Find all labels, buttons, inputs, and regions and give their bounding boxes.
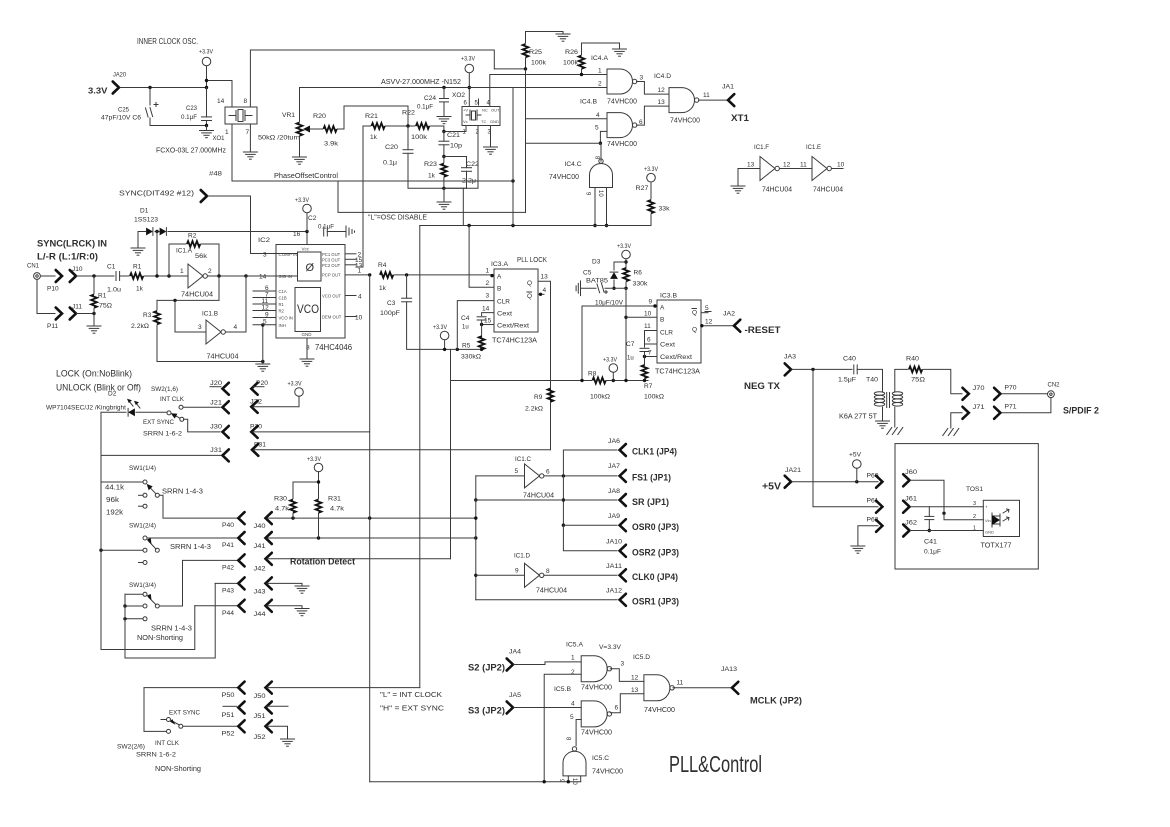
svg-text:IC1.F: IC1.F (754, 144, 769, 151)
svg-text:VCO: VCO (297, 304, 319, 316)
svg-text:C4: C4 (461, 315, 470, 322)
wire SW1-2 top contact to P41 (147, 537, 236, 539)
wire P70 to CN2 (1002, 393, 1048, 395)
svg-text:10: 10 (644, 311, 652, 318)
svg-text:TC: TC (481, 119, 486, 124)
svg-text:3: 3 (621, 661, 625, 668)
svg-text:P11: P11 (47, 323, 58, 330)
inverter IC1.D (525, 563, 544, 587)
svg-text:J42: J42 (254, 566, 266, 573)
svg-text:P44: P44 (222, 610, 234, 617)
svg-text:VCO OUT: VCO OUT (322, 294, 342, 299)
svg-text:15: 15 (484, 318, 492, 325)
ground phase net (437, 188, 451, 209)
svg-text:3.3V: 3.3V (88, 86, 108, 96)
svg-text:PC3 OUT: PC3 OUT (322, 258, 341, 263)
svg-text:K6A 27T 5T: K6A 27T 5T (839, 414, 878, 421)
wire y300 horizontal (157, 299, 219, 301)
svg-text:JA13: JA13 (721, 666, 737, 673)
svg-text:SYNC(LRCK) IN: SYNC(LRCK) IN (37, 239, 107, 250)
connector SYNC arrow (201, 190, 207, 202)
svg-text:+3.3V: +3.3V (307, 456, 322, 463)
wire JA9 row (563, 524, 617, 526)
svg-text:+3.3V: +3.3V (603, 357, 618, 364)
svg-text:EXT SYNC: EXT SYNC (143, 419, 174, 426)
svg-text:1k: 1k (428, 173, 436, 180)
wire P62 from ground (858, 526, 878, 546)
wire SYNC to COMP IN (208, 196, 276, 254)
wire XO1 pin8 up and right (250, 50, 494, 107)
svg-text:1: 1 (973, 526, 976, 532)
svg-text:C41: C41 (924, 539, 937, 546)
svg-text:JA11: JA11 (606, 563, 622, 570)
svg-text:J52: J52 (254, 734, 266, 741)
svg-text:J50: J50 (254, 693, 266, 700)
svg-text:J71: J71 (973, 404, 985, 411)
svg-text:C1A: C1A (279, 289, 287, 294)
bus x525 down (525, 69, 527, 213)
wire +3.3V stem to rail (206, 66, 208, 88)
svg-text:JA1: JA1 (722, 84, 734, 91)
wire P31 to R9 (254, 449, 551, 451)
wire R20 right up and over (338, 106, 409, 129)
svg-text:74HCU04: 74HCU04 (523, 492, 554, 499)
svg-text:J43: J43 (254, 589, 266, 596)
svg-text:330kΩ: 330kΩ (461, 354, 481, 361)
capacitor C41 0.1uF (925, 516, 934, 519)
svg-text:2: 2 (486, 280, 490, 287)
svg-text:R9: R9 (534, 394, 543, 401)
svg-text:CLR: CLR (497, 299, 510, 306)
bus JA rows down (562, 476, 564, 525)
svg-text:4: 4 (358, 294, 362, 301)
svg-text:XO2: XO2 (452, 92, 465, 99)
svg-text:P51: P51 (222, 712, 235, 719)
wire R25 bottom (525, 58, 527, 69)
wire J40 right to R30 and bus (267, 517, 474, 519)
LED D2 (127, 399, 140, 417)
wire S2 to IC5.A pin1 (514, 662, 581, 665)
power +3.3V XO2 (465, 64, 474, 73)
wire J44 to ground (267, 606, 302, 609)
svg-text:R1: R1 (98, 293, 107, 300)
wire C22 bottom (444, 171, 467, 188)
wire Q13 down long to P31 (538, 281, 551, 450)
nand gate IC5.A (581, 656, 611, 682)
svg-text:C21: C21 (447, 132, 460, 139)
wire pin5 node left (526, 142, 601, 144)
svg-text:3.9k: 3.9k (324, 141, 339, 148)
svg-text:74VHC00: 74VHC00 (670, 118, 700, 125)
svg-text:IC2: IC2 (258, 237, 270, 244)
wire IC4.D output 11 to XT1 (699, 99, 728, 101)
wire R21 left to bus (363, 125, 371, 127)
ground VR1 (293, 157, 307, 164)
svg-text:Cext: Cext (497, 311, 512, 318)
svg-text:IC4.C: IC4.C (565, 161, 582, 168)
svg-text:14: 14 (217, 98, 225, 105)
connector J71 (963, 407, 969, 419)
svg-text:R1: R1 (133, 264, 142, 271)
svg-text:CN1: CN1 (27, 264, 40, 270)
ground IC2 pin8 (300, 359, 314, 366)
svg-text:+3.3V: +3.3V (644, 166, 659, 173)
wire J22 to +3.3V (253, 396, 299, 407)
svg-text:P42: P42 (222, 565, 234, 572)
wire T40 secondary bottom to chassis (894, 407, 896, 427)
svg-text:13: 13 (747, 162, 755, 169)
svg-text:OSR2 (JP3): OSR2 (JP3) (632, 548, 679, 558)
wire bottom rail (370, 781, 581, 783)
power +3.3V R8 (609, 364, 618, 373)
node C24 junction (442, 86, 445, 89)
svg-text:R4: R4 (378, 262, 387, 269)
svg-text:P70: P70 (1005, 385, 1017, 392)
chassis ground J71 (943, 429, 959, 436)
svg-text:+5V: +5V (849, 452, 862, 459)
svg-text:SW1(3/4): SW1(3/4) (129, 582, 156, 589)
connector JA20 arrow (113, 82, 119, 94)
svg-text:J21: J21 (210, 400, 222, 407)
svg-text:50kΩ /20turn: 50kΩ /20turn (258, 135, 300, 142)
svg-text:75Ω: 75Ω (99, 303, 112, 310)
svg-text:INT CLK: INT CLK (160, 396, 185, 403)
svg-text:+3.3V: +3.3V (288, 381, 303, 388)
svg-text:R8: R8 (588, 371, 597, 378)
bus +3.3V node down to R8 line (450, 349, 452, 380)
svg-text:5: 5 (515, 468, 519, 475)
svg-text:7: 7 (648, 350, 652, 357)
wire bottom rail to ground and right (444, 188, 463, 225)
svg-text:JA9: JA9 (608, 513, 620, 520)
wire J41 right to R31 (267, 537, 476, 539)
wire IC1.A out (208, 275, 247, 277)
inverter IC1.C (525, 464, 544, 488)
svg-text:SW2(2/6): SW2(2/6) (117, 744, 145, 751)
wire IC1.C in drop (475, 476, 477, 500)
svg-text:JA20: JA20 (113, 72, 126, 79)
svg-text:"H" = EXT SYNC: "H" = EXT SYNC (380, 704, 445, 713)
svg-text:JA5: JA5 (509, 692, 521, 699)
svg-text:13: 13 (541, 274, 549, 281)
wire J62 to TOTX pin1 (911, 530, 984, 532)
svg-text:+3.3V: +3.3V (617, 243, 632, 250)
wire IC1.D output JA11 (544, 574, 617, 576)
svg-text:4.7k: 4.7k (275, 506, 290, 513)
svg-text:74VHC00: 74VHC00 (549, 174, 579, 181)
svg-text:J31: J31 (210, 447, 222, 454)
svg-text:+: + (985, 505, 988, 510)
wire SW1-1 top contact from bus (101, 481, 143, 483)
wire P44 row (195, 605, 237, 607)
nand gate IC4.C vertical (590, 159, 613, 188)
svg-text:D3: D3 (592, 259, 601, 266)
svg-text:0.1μF: 0.1μF (417, 104, 433, 111)
wires R30 R31 bottoms (292, 514, 294, 519)
svg-text:C23: C23 (186, 105, 197, 112)
wire diode rail (138, 231, 146, 233)
svg-text:INNER CLOCK OSC.: INNER CLOCK OSC. (137, 37, 198, 46)
wire R3 leads (156, 300, 158, 310)
svg-text:CLK0 (JP4): CLK0 (JP4) (632, 572, 678, 582)
svg-text:74VHC00: 74VHC00 (592, 769, 623, 776)
svg-text:XO1: XO1 (213, 135, 225, 142)
svg-text:IC5.B: IC5.B (554, 686, 571, 693)
wire SW2-2 bus (144, 688, 166, 732)
svg-text:4.7k: 4.7k (330, 506, 345, 513)
wire IC4.C input from pin5 node (600, 143, 602, 161)
pin 1 PCP OUT wire (345, 274, 370, 276)
svg-text:J70: J70 (973, 385, 985, 392)
crystal oscillator XO1 box (225, 107, 257, 124)
wire IC1.C output JA7 (544, 475, 617, 477)
svg-text:IC3.B: IC3.B (660, 293, 677, 300)
svg-text:"L"=OSC DISABLE: "L"=OSC DISABLE (368, 213, 427, 222)
svg-text:INT CLK: INT CLK (155, 740, 180, 747)
wire C1 to R1h (120, 275, 129, 277)
svg-text:74HCU04: 74HCU04 (762, 187, 792, 194)
svg-text:TC74HC123A: TC74HC123A (655, 367, 700, 376)
svg-text:JA6: JA6 (608, 438, 620, 445)
svg-text:R30: R30 (274, 496, 287, 503)
node junction C23 (205, 86, 208, 89)
wire R25 top to ground (526, 32, 564, 44)
svg-text:S/PDIF 2: S/PDIF 2 (1063, 406, 1099, 416)
wire IC5.D output to JA13 (673, 687, 732, 689)
power +3.3V R30 R31 (314, 463, 323, 472)
svg-text:9: 9 (515, 568, 519, 575)
svg-text:13: 13 (631, 687, 639, 694)
svg-text:R31: R31 (328, 496, 341, 503)
svg-text:R20: R20 (313, 113, 326, 120)
svg-text:1: 1 (486, 268, 490, 275)
svg-text:6: 6 (639, 119, 643, 126)
nand gate IC5.D (644, 675, 674, 701)
svg-text:2: 2 (208, 268, 212, 275)
svg-text:Ø: Ø (306, 262, 315, 274)
capacitor C5 polarized (597, 283, 608, 293)
svg-text:J44: J44 (254, 611, 266, 618)
svg-text:3: 3 (198, 324, 202, 331)
svg-text:IC4.A: IC4.A (591, 55, 609, 62)
bus x450 down from R8 line (450, 381, 452, 559)
svg-text:Q: Q (527, 280, 532, 287)
svg-text:3: 3 (263, 252, 267, 259)
C2 decouple symbol (346, 226, 355, 237)
bus x369 segment down (369, 275, 371, 782)
wire CN1 to P10 (41, 275, 56, 277)
chassis ground T40 (887, 428, 903, 435)
svg-text:4: 4 (543, 287, 547, 294)
svg-text:330k: 330k (633, 281, 649, 288)
svg-text:B: B (497, 286, 501, 293)
svg-text:JA2: JA2 (723, 311, 735, 318)
svg-text:CN2: CN2 (1048, 383, 1061, 389)
svg-text:SRRN 1-4-3: SRRN 1-4-3 (170, 544, 211, 551)
svg-text:C5: C5 (583, 270, 592, 277)
wires R30 R31 tops (318, 472, 320, 499)
svg-text:C2: C2 (308, 215, 317, 222)
nand gate IC5.B (581, 701, 611, 727)
svg-text:Cext/Rext: Cext/Rext (497, 323, 529, 330)
svg-text:C7: C7 (626, 341, 635, 348)
svg-text:A: A (497, 274, 502, 281)
ground IC1.F input (731, 186, 745, 193)
svg-text:PhaseOffsetControl: PhaseOffsetControl (274, 173, 338, 180)
inverter IC1.A (188, 264, 207, 288)
svg-text:SW1(1/4): SW1(1/4) (129, 465, 156, 472)
wire diode node down to input (156, 232, 158, 277)
wire JA6 branch (563, 450, 617, 476)
wires SW1-3 contacts to bus (125, 593, 143, 595)
svg-text:IC4.B: IC4.B (580, 99, 597, 106)
svg-text:10: 10 (837, 162, 845, 169)
svg-text:C3: C3 (387, 300, 396, 307)
svg-text:JA21: JA21 (785, 467, 801, 474)
svg-text:IC1.D: IC1.D (514, 553, 530, 560)
wire JA12 row (476, 599, 617, 601)
power +3.3V XO1 (202, 57, 211, 66)
svg-text:"L" = INT CLOCK: "L" = INT CLOCK (380, 690, 442, 699)
wire R21 to R22 (386, 125, 416, 127)
svg-text:3: 3 (973, 501, 976, 507)
svg-text:JA7: JA7 (608, 463, 620, 470)
svg-text:0.1μF: 0.1μF (924, 549, 941, 556)
svg-text:74HCU04: 74HCU04 (207, 352, 239, 361)
nand gate IC4.B (607, 113, 637, 138)
wire P43 from lower bus (215, 582, 236, 584)
svg-text:1.0u: 1.0u (107, 287, 121, 294)
ground R25 (556, 32, 570, 42)
svg-text:OSR1 (JP3): OSR1 (JP3) (632, 597, 679, 607)
wire R8 rail (451, 380, 592, 382)
svg-text:74HCU04: 74HCU04 (536, 588, 567, 595)
wire INT CLK contact to J21 (183, 406, 220, 408)
svg-text:11: 11 (644, 323, 651, 330)
resistor R27 33k (648, 200, 654, 213)
wire bus to SW1-2 mid contact (101, 549, 143, 551)
svg-text:+5V: +5V (762, 482, 781, 493)
wire R40 to J70 (923, 369, 962, 393)
svg-text:P43: P43 (222, 588, 234, 595)
svg-text:C22: C22 (466, 161, 479, 168)
svg-text:C20: C20 (385, 144, 398, 151)
svg-text:4: 4 (571, 701, 575, 708)
phase comparator box (298, 252, 322, 281)
svg-text:10: 10 (355, 315, 363, 322)
svg-text:2: 2 (598, 81, 602, 88)
svg-text:10μF/10V: 10μF/10V (595, 299, 624, 306)
svg-text:SRRN 1-6-2: SRRN 1-6-2 (136, 752, 176, 759)
ground D1 (131, 248, 145, 255)
wire J11 to R1 node (77, 313, 95, 315)
svg-text:2: 2 (973, 514, 976, 520)
TOTX inner LED (992, 509, 1009, 527)
wire IC1.B out up to SIG IN (226, 276, 247, 332)
svg-text:LOCK (On:NoBlink): LOCK (On:NoBlink) (56, 369, 132, 379)
svg-text:NEG TX: NEG TX (744, 381, 781, 392)
wire x513 to rail (512, 181, 514, 226)
svg-text:4: 4 (596, 112, 600, 119)
wire VR1 top to supply rail (299, 88, 301, 122)
nand gate IC5.C vertical (563, 747, 586, 776)
svg-text:NON-Shorting: NON-Shorting (155, 766, 201, 773)
wire R2 leads (169, 243, 186, 245)
ground P62 (851, 546, 865, 553)
bus SW1-3 down (125, 583, 215, 658)
wire C4 bottom to R5 (481, 320, 483, 337)
ground R1 (87, 326, 101, 333)
wire IC4.B out 6 to IC4.D pin13 (637, 106, 670, 125)
svg-text:14: 14 (259, 274, 267, 281)
wire C23 leads (206, 88, 208, 117)
svg-text:+V: +V (463, 108, 468, 113)
svg-text:NC: NC (482, 108, 488, 113)
svg-text:IC5.D: IC5.D (633, 654, 650, 661)
wire T40 primary bottom to ground (882, 407, 884, 421)
wire R6 bottom (625, 282, 627, 288)
wire IC1.E out stub (832, 168, 844, 170)
diode D1a (146, 228, 153, 236)
svg-text:1u: 1u (627, 356, 634, 362)
svg-text:74VHC00: 74VHC00 (581, 685, 612, 692)
svg-text:2.2kΩ: 2.2kΩ (525, 406, 543, 413)
wire VR1 wiper to R20 (316, 128, 323, 130)
svg-text:J51: J51 (254, 713, 266, 720)
svg-text:100kΩ: 100kΩ (644, 394, 664, 401)
svg-text:GND: GND (490, 119, 499, 124)
wire IC1.F out to IC1.E in (780, 168, 813, 170)
wire C2 right (327, 231, 346, 233)
TOTX177 box (983, 500, 1019, 536)
wire R4 to IC3.A (394, 274, 494, 276)
wire IC4.C pin10 down (606, 188, 608, 226)
wire J60 down to pin2 (911, 480, 945, 513)
wire +5V to P60 (792, 481, 878, 483)
svg-text:EXT SYNC: EXT SYNC (169, 710, 200, 717)
svg-text:14: 14 (482, 306, 490, 313)
diode D1b (160, 228, 167, 236)
wire SW1-1 pole to P40 (160, 495, 237, 518)
svg-text:UNLOCK (Blink or Off): UNLOCK (Blink or Off) (56, 383, 141, 393)
svg-text:7: 7 (246, 129, 250, 136)
wire R26 bottom (581, 70, 583, 75)
svg-text:74VHC00: 74VHC00 (644, 707, 675, 714)
wire C5 rail (581, 287, 597, 289)
svg-text:16: 16 (293, 231, 301, 238)
wire LED anode (136, 411, 167, 413)
wire SW2 pole to J30 (184, 419, 221, 432)
power +3.3V J22 (295, 388, 304, 397)
svg-text:5: 5 (595, 125, 599, 132)
svg-text:10: 10 (597, 190, 603, 197)
wire XO1 pin14 supply (207, 81, 233, 108)
wire C25 top (149, 88, 151, 106)
wire P71 to CN2 shell (1002, 398, 1051, 413)
connector P71 (994, 407, 1000, 419)
svg-text:FS1 (JP1): FS1 (JP1) (632, 473, 671, 483)
wire JA10 row (563, 525, 617, 551)
svg-text:P71: P71 (1005, 404, 1017, 411)
svg-text:SRRN 1-6-2: SRRN 1-6-2 (143, 431, 182, 438)
connector P70 (994, 388, 1000, 400)
svg-text:Cext: Cext (660, 342, 675, 349)
ground rail IC2 (261, 360, 264, 363)
svg-text:R26: R26 (565, 49, 578, 56)
svg-text:P10: P10 (47, 286, 59, 293)
svg-text:TOS1: TOS1 (966, 486, 983, 493)
svg-text:C40: C40 (843, 356, 856, 363)
